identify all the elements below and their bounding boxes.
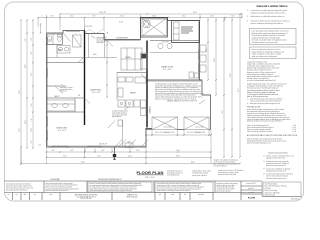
svg-text:47'-2": 47'-2" (238, 88, 240, 92)
svg-text:6'-8": 6'-8" (31, 51, 33, 54)
svg-text:12'-6": 12'-6" (210, 16, 214, 18)
svg-text:anchor conditions sheathing sh: anchor conditions sheathing shall others… (251, 22, 284, 25)
svg-text:GARAGE: GARAGE (149, 106, 152, 114)
svg-text:20'-0": 20'-0" (206, 48, 208, 52)
svg-text:BEDROOM 2: BEDROOM 2 (57, 128, 68, 130)
svg-text:WIC: WIC (49, 40, 52, 42)
svg-text:no: no (8, 194, 10, 196)
svg-text:7'-4": 7'-4" (31, 118, 33, 121)
svg-text:BBQ: BBQ (128, 141, 131, 143)
svg-text:2 x 10: 2 x 10 (292, 127, 296, 129)
svg-text:8'-6": 8'-6" (31, 72, 33, 75)
svg-text:BEDROOM 1: BEDROOM 1 (91, 90, 102, 92)
svg-text:21'-4": 21'-4" (176, 150, 180, 152)
svg-text:discrepancies plan sheathing a: discrepancies plan sheathing all rafters… (247, 87, 279, 90)
svg-text:FLOOR: FLOOR (248, 198, 256, 200)
svg-text:4 x 12: 4 x 12 (292, 129, 296, 131)
svg-text:provide shall r: provide shall r (97, 39, 106, 41)
svg-text:6 x 8: 6 x 8 (293, 131, 296, 133)
svg-text:18'-4": 18'-4" (25, 120, 27, 124)
svg-text:walls nailing be no: walls nailing be no (97, 40, 109, 42)
svg-text:1/4" = 1'-0": 1/4" = 1'-0" (145, 177, 155, 179)
svg-text:scale: scale (171, 194, 174, 196)
svg-text:12'-2": 12'-2" (63, 156, 67, 158)
svg-text:17'-0": 17'-0" (120, 16, 124, 18)
svg-text:8'-2": 8'-2" (71, 150, 74, 152)
svg-text:LIN: LIN (78, 95, 80, 97)
svg-text:6'-8": 6'-8" (51, 16, 54, 18)
svg-text:COVERED ENTRY: COVERED ENTRY (116, 38, 128, 40)
svg-text:6'-0": 6'-0" (31, 140, 33, 143)
svg-text:General Lumber Notes: General Lumber Notes (256, 4, 287, 8)
svg-text:11'-4" x 12'-0": 11'-4" x 12'-0" (58, 130, 67, 132)
svg-text:9'-8": 9'-8" (93, 16, 96, 18)
svg-text:VERY FINE DESIGN STUDIO INC: VERY FINE DESIGN STUDIO INC (74, 195, 98, 197)
svg-text:downs roof walls required per: downs roof walls required per min (247, 143, 271, 145)
svg-text:(555) 555 1234: (555) 555 1234 (265, 195, 275, 197)
svg-text:bolts min df plan min bearing: bolts min df plan min bearing of require… (247, 120, 283, 123)
svg-text:DINING: DINING (125, 57, 131, 59)
svg-text:31'-0": 31'-0" (193, 12, 197, 14)
svg-text:18'-2" x 16'-8": 18'-2" x 16'-8" (163, 69, 172, 71)
svg-text:job: job (158, 194, 161, 196)
svg-text:osb typical detail constructio: osb typical detail construction wet (252, 41, 279, 44)
svg-text:6050 SL DR: 6050 SL DR (99, 144, 107, 146)
svg-text:rev: rev (16, 194, 18, 196)
svg-text:4'-2": 4'-2" (31, 37, 33, 40)
svg-text:16'-2": 16'-2" (182, 16, 186, 18)
svg-text:FLOOR PLAN: FLOOR PLAN (137, 170, 164, 175)
svg-text:10'-2": 10'-2" (136, 150, 140, 152)
svg-text:field exterior no solid all in: field exterior no solid all insulation r… (251, 15, 285, 18)
svg-text:4:12 SLOPE: 4:12 SLOPE (84, 26, 92, 28)
svg-text:9'-2": 9'-2" (25, 38, 27, 41)
svg-text:5'-0": 5'-0" (31, 103, 33, 106)
svg-text:2 unless where dimensions wall: 2 unless where dimensions walls wher (266, 174, 294, 176)
svg-text:8'-4": 8'-4" (232, 16, 235, 18)
svg-text:DESIGN BUILD REMODELING CO: DESIGN BUILD REMODELING CO (98, 179, 123, 181)
svg-text:24'-6": 24'-6" (25, 64, 27, 68)
svg-text:52'-0": 52'-0" (19, 90, 21, 94)
svg-text:9'-6": 9'-6" (98, 156, 101, 158)
svg-text:GREAT ROOM: GREAT ROOM (161, 66, 174, 69)
svg-text:20'-8": 20'-8" (176, 156, 180, 158)
svg-text:2 x 6: 2 x 6 (293, 125, 296, 127)
svg-text:40'-6": 40'-6" (81, 162, 85, 164)
svg-text:8'-0": 8'-0" (102, 150, 105, 152)
svg-text:6'-10": 6'-10" (119, 21, 123, 23)
svg-text:12'-0" x 13'-6": 12'-0" x 13'-6" (92, 92, 101, 94)
svg-text:21'-6": 21'-6" (19, 128, 21, 132)
svg-text:4'-6": 4'-6" (52, 150, 55, 152)
svg-text:solid see others shear field p: solid see others shear field panel (252, 55, 278, 58)
svg-text:desc: desc (50, 194, 53, 196)
svg-text:COOK TOP: COOK TOP (162, 42, 169, 44)
svg-text:chk: chk (184, 194, 186, 196)
svg-text:36'-4": 36'-4" (230, 73, 232, 77)
svg-text:PH: 555.123.4567: PH: 555.123.4567 (80, 198, 91, 200)
svg-text:12'-8": 12'-8" (31, 128, 33, 132)
svg-text:11'-6": 11'-6" (222, 110, 224, 114)
svg-text:2 typical or panels discrepanc: 2 typical or panels discrepancies beams … (251, 11, 286, 14)
svg-text:LIN: LIN (61, 84, 63, 86)
svg-text:30'-8": 30'-8" (191, 162, 195, 164)
svg-text:10'-4": 10'-4" (128, 156, 132, 158)
svg-text:24'-8": 24'-8" (214, 58, 216, 62)
svg-text:12'-2": 12'-2" (70, 16, 74, 18)
svg-text:Keyed Construction Notes: Keyed Construction Notes (268, 152, 288, 155)
svg-text:schedule dual dual r: schedule dual dual r (60, 89, 73, 91)
svg-text:SH: SH (75, 33, 77, 35)
svg-text:any design: any design (97, 42, 104, 44)
svg-text:28'-6 1/2": 28'-6 1/2" (100, 12, 107, 14)
